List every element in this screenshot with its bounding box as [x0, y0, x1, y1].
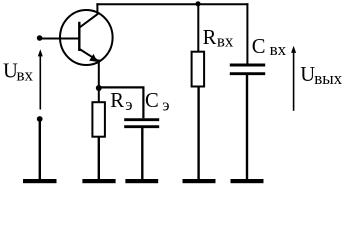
transistor VT1: [60, 3, 113, 65]
capacitor C_vx: [230, 65, 265, 74]
svg-text:э: э: [125, 95, 132, 114]
svg-text:U: U: [300, 64, 315, 86]
svg-text:вх: вх: [217, 32, 234, 51]
node: emitter junction: [96, 85, 102, 91]
ground: C_vx: [231, 179, 264, 183]
svg-text:вх: вх: [270, 40, 287, 59]
svg-text:C: C: [252, 36, 266, 58]
ground: R_vx: [183, 179, 216, 183]
wire: top rail from collector riser to C_vx: [96, 3, 248, 5]
svg-text:C: C: [145, 90, 159, 112]
svg-text:вх: вх: [17, 66, 34, 85]
resistor R_e: [92, 102, 105, 137]
svg-text:R: R: [203, 27, 217, 49]
ground: C_e: [125, 179, 158, 183]
wire: top rail corner down to C_vx: [246, 3, 248, 64]
wire: junction to R_e: [98, 88, 100, 102]
ground: input side: [23, 179, 57, 183]
wire: C_e to ground: [141, 128, 143, 180]
label C_e: [145, 90, 170, 114]
wire: R_vx to ground: [197, 87, 199, 181]
wire: R_e to ground: [98, 137, 100, 180]
svg-text:э: э: [162, 95, 169, 114]
label R_vx: [203, 27, 234, 50]
wire: emitter lead down to junction: [98, 60, 100, 89]
label R_e: [110, 90, 132, 114]
node: input terminal (top): [37, 35, 43, 41]
svg-text:вых: вых: [314, 69, 342, 88]
wire: junction to R_vx: [197, 4, 199, 51]
svg-text:R: R: [110, 90, 124, 112]
node: top rail junction for R_vx: [195, 1, 200, 6]
label U_vyx with arrow: [291, 46, 343, 111]
resistor R_vx: [192, 52, 205, 87]
wire: base lead from input terminal to transistor: [40, 38, 80, 40]
capacitor C_e: [124, 120, 159, 127]
node: input terminal (bottom): [37, 116, 43, 122]
ground: R_e: [82, 179, 115, 183]
label C_vx: [252, 36, 287, 59]
wire: C_vx to ground: [246, 75, 248, 181]
label U_vx with arrow: [3, 49, 43, 109]
wire: bottom input terminal to ground: [39, 119, 41, 180]
wire: junction to C_e: [99, 87, 144, 118]
